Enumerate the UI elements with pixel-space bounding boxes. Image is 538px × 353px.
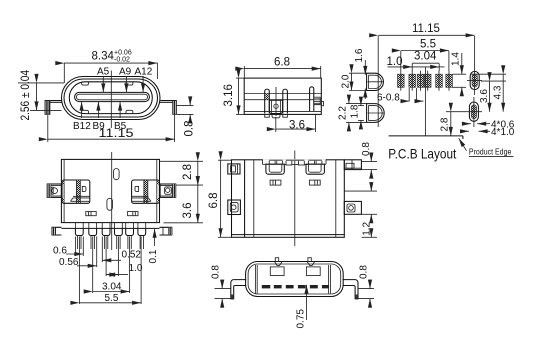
svg-text:B12: B12	[73, 121, 91, 132]
right protrusion	[321, 102, 323, 106]
svg-text:B9: B9	[93, 121, 106, 132]
right mid tab	[344, 201, 361, 214]
dim 0.1	[154, 229, 156, 246]
dim 2.8	[450, 112, 452, 136]
svg-text:6-0.8: 6-0.8	[377, 92, 400, 103]
pin A	[265, 89, 270, 113]
center line of block	[275, 87, 277, 116]
dim 1.0 leader	[388, 66, 413, 68]
right foot	[173, 101, 177, 115]
left latch small tab	[82, 186, 86, 191]
left latch block	[62, 180, 90, 203]
shell second outline	[64, 79, 158, 117]
body	[244, 78, 321, 114]
svg-text:5.5: 5.5	[420, 39, 436, 51]
dim 1.4	[452, 73, 466, 75]
center block circle	[274, 104, 278, 108]
internal line 2	[244, 99, 321, 101]
svg-text:0.56: 0.56	[59, 257, 79, 268]
svg-text:6.8: 6.8	[274, 57, 290, 69]
body outline	[61, 159, 159, 222]
svg-text:2.0: 2.0	[341, 74, 352, 88]
smt pad 5	[436, 74, 443, 87]
contact dashes	[262, 285, 271, 288]
dim 2.0 left	[349, 72, 367, 74]
top latch bump right	[126, 82, 133, 85]
inner edge lines	[63, 159, 65, 222]
right U-block tabs	[309, 160, 315, 164]
left U-block	[266, 164, 284, 174]
internal line 1	[244, 93, 321, 95]
svg-text:1.0: 1.0	[387, 56, 403, 68]
right hatch bar	[314, 97, 320, 105]
dim 4*1.0	[461, 130, 470, 132]
right side bar	[160, 227, 173, 235]
center tabs	[286, 160, 292, 165]
svg-text:4.3: 4.3	[493, 85, 504, 99]
right leg arm	[160, 100, 176, 102]
pin C	[310, 87, 314, 111]
center line	[110, 71, 112, 129]
body outline	[232, 160, 345, 238]
svg-text:3.6: 3.6	[289, 120, 305, 132]
right latch bottom lines	[132, 195, 149, 197]
svg-text:3.16: 3.16	[223, 84, 235, 106]
svg-text:0.8: 0.8	[184, 121, 196, 137]
right latch block	[132, 180, 160, 203]
svg-text:4*1.0: 4*1.0	[491, 127, 515, 138]
svg-text:1.4: 1.4	[451, 52, 462, 66]
svg-text:0.8: 0.8	[211, 265, 222, 279]
left top hole pad	[367, 73, 384, 90]
pins U row	[75, 228, 83, 235]
left wing	[47, 184, 61, 197]
inner rect right	[306, 267, 320, 276]
svg-text:3.04: 3.04	[414, 51, 437, 63]
crown recessed edge	[263, 159, 326, 161]
svg-text:1.8: 1.8	[350, 104, 361, 118]
left bottom hole pad	[367, 104, 385, 123]
small contact pair left	[86, 212, 96, 216]
center line	[111, 152, 113, 250]
shell outline	[246, 262, 344, 297]
dim 1.6 left	[364, 60, 366, 75]
left leg arm	[45, 100, 62, 102]
left side bar	[52, 227, 61, 235]
right dims 2.8 / 3.6	[160, 160, 203, 162]
left leg bent strip	[231, 280, 246, 299]
dim 6.8	[243, 66, 245, 78]
pin ext lines	[78, 236, 144, 249]
tongue inner line	[76, 94, 147, 100]
dim 3.16	[236, 77, 244, 79]
dim 2.2 left	[346, 103, 367, 105]
tongue outer	[75, 92, 150, 101]
right dims 0.8 / 1.2 column	[362, 161, 377, 163]
right latch small tab	[135, 186, 139, 191]
dim 0.8 right	[358, 288, 374, 290]
right top pad vertical line (11.15 ext)	[474, 36, 476, 95]
svg-text:0.52: 0.52	[122, 250, 142, 261]
svg-text:3.04: 3.04	[102, 282, 122, 293]
svg-text:0.75: 0.75	[295, 309, 306, 329]
shell inner line	[248, 264, 341, 294]
left latch bottom lines	[73, 195, 90, 197]
svg-text:A5: A5	[97, 67, 110, 78]
svg-text:11.15: 11.15	[412, 23, 440, 35]
left top tab	[228, 164, 240, 174]
dim 1.8 left	[360, 98, 362, 106]
product edge leader	[459, 138, 467, 151]
svg-text:-0.02: -0.02	[114, 57, 130, 64]
bottom strip	[61, 227, 159, 229]
contact pair left	[270, 180, 281, 185]
dim 11.15 top	[378, 34, 474, 36]
pin B foot	[283, 114, 288, 117]
svg-text:0.8: 0.8	[361, 142, 372, 156]
vertical dividers	[244, 160, 246, 238]
svg-text:A12: A12	[135, 67, 153, 78]
inner rect left	[270, 267, 284, 276]
dim 0.8 left	[215, 288, 231, 290]
svg-text:3.6: 3.6	[182, 203, 194, 219]
dim 6.8 left	[218, 159, 232, 161]
center line	[294, 151, 296, 247]
smt pad 1	[398, 74, 405, 87]
right top hole pad	[470, 71, 479, 89]
pin A foot	[265, 114, 270, 117]
mid oval bump	[107, 198, 113, 210]
pin B	[283, 89, 288, 113]
bottom double line	[232, 234, 345, 236]
right corner cell line	[344, 167, 361, 169]
connector center line	[424, 67, 426, 136]
dim 3.04	[411, 64, 413, 72]
svg-text:3.6: 3.6	[479, 89, 490, 103]
dim 3.6	[275, 117, 277, 132]
dim 0.8 right	[177, 104, 194, 106]
svg-text:2.8: 2.8	[440, 117, 451, 131]
svg-text:1.0: 1.0	[129, 263, 143, 274]
dim 2.56±0.04	[18, 82, 64, 84]
left U-block tabs	[269, 160, 275, 164]
dim 4*0.6	[463, 123, 471, 125]
shell inner end walls	[328, 265, 330, 294]
dim 11.15 bottom	[47, 115, 49, 142]
svg-text:+0.06: +0.06	[114, 50, 132, 57]
bottom latch bump right	[126, 110, 133, 113]
right U-block	[306, 164, 324, 174]
top oval bump	[114, 169, 120, 180]
svg-text:0.1: 0.1	[148, 249, 159, 263]
svg-text:B5: B5	[114, 121, 127, 132]
dim 5.5	[400, 51, 402, 71]
svg-text:A9: A9	[119, 67, 132, 78]
center block	[269, 100, 282, 113]
left foot	[45, 101, 50, 115]
smt pad 2	[409, 74, 416, 87]
svg-text:6.8: 6.8	[208, 193, 220, 209]
svg-text:0.6: 0.6	[53, 245, 67, 256]
svg-text:1.2: 1.2	[361, 221, 372, 235]
dim 8.34 +0.06/-0.02	[63, 63, 65, 83]
shell outer stadium	[62, 77, 161, 120]
smt pad 4	[424, 74, 431, 87]
pad center lines	[400, 71, 402, 91]
right wing	[160, 184, 176, 197]
right leg bent strip	[343, 280, 358, 299]
bottom latch bump left	[82, 110, 89, 113]
small contact pair right	[128, 212, 138, 216]
svg-text:2.8: 2.8	[182, 164, 194, 180]
right bottom hole pad	[469, 102, 478, 121]
svg-text:1.6: 1.6	[354, 48, 365, 62]
dim 0.75 leader	[306, 285, 308, 320]
svg-text:2.56 ± 0.04: 2.56 ± 0.04	[20, 69, 32, 120]
left mid clip	[228, 200, 241, 215]
center block foot	[272, 114, 280, 117]
contact pair right	[309, 180, 320, 185]
svg-text:2.2: 2.2	[338, 106, 349, 120]
left pads vertical line (11.15 ext)	[377, 36, 379, 97]
shell opening	[69, 82, 152, 114]
svg-text:0.8: 0.8	[359, 265, 370, 279]
dim 4.3 right	[470, 73, 506, 75]
svg-text:8.34: 8.34	[92, 51, 115, 63]
smt pad 3	[417, 74, 424, 87]
top latch bump left	[82, 82, 89, 85]
svg-text:P.C.B Layout: P.C.B Layout	[388, 146, 456, 162]
right top tab	[344, 160, 361, 170]
dim 3.6 right	[481, 80, 506, 82]
smt pad 6	[446, 74, 453, 87]
top tabs	[275, 258, 278, 262]
svg-text:Product Edge: Product Edge	[469, 147, 512, 157]
product edge line	[389, 135, 463, 137]
internal line 3	[244, 111, 321, 113]
